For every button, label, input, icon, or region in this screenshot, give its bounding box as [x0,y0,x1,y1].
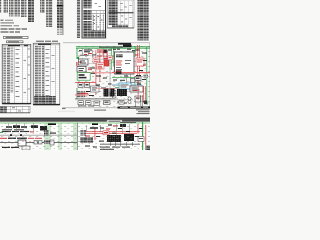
sheet1 bottom border [63,107,150,110]
red dashes under tab [113,125,118,126]
green pair risers mid [111,48,115,70]
dark box s2 [124,134,134,141]
red wire v1 [95,50,98,95]
harness table T1 [2,44,31,104]
switch S1 [77,67,93,73]
dark wire over green bus [120,121,136,124]
green bus wire upper [76,45,150,48]
red label box LB3 [108,56,113,60]
text row s2a [2,129,24,130]
wire list column 2 [9,0,14,17]
black box above red block [103,50,107,54]
legend column right [137,0,148,41]
sheet2 extra labels [85,128,143,148]
small component cluster right of bus [135,75,148,81]
green strip B [58,123,62,150]
text row s3 [8,138,42,139]
label CR right [92,123,98,125]
red wire h s2 right [80,130,140,133]
connector table TB [107,0,134,28]
wire under E1 [58,110,75,112]
sheet2 tab label [107,120,122,123]
wire bus lower [75,97,115,100]
note line 3 [1,24,20,27]
junction block [40,126,47,131]
red wire h2 s2 right [80,132,137,135]
pink feeder wire [77,72,150,73]
relay K1 [79,59,89,65]
green strip C [73,123,78,150]
wire bus lower2 [75,99,133,102]
green bus wire lower [76,47,150,50]
component box B1 [18,140,26,146]
red label box s2 [103,131,109,135]
green dash left s2 [0,131,3,134]
red riser s2 a [94,128,97,140]
junction box right [120,124,126,127]
scattered wire labels sheet1 [79,49,147,104]
connector table TA left border [81,0,84,38]
label DR [48,123,56,125]
text row s2 [2,131,34,133]
red riser s2 b [137,124,140,133]
red sensor box M1 [93,58,99,63]
harness table T2 header note [36,41,58,42]
connector balloons [128,96,141,103]
red splice blob [116,70,122,74]
pin stubs s2 [110,142,133,146]
red label box LB2 [136,58,144,66]
red cluster s2 [85,136,92,141]
wire list column 6 [40,0,45,13]
corner cluster s2 [146,146,151,151]
red wire v2 [99,52,102,82]
red stub left [0,138,7,139]
red feeder overlay [112,71,150,74]
footer text [94,110,106,111]
small boxes left of J2 [112,91,116,99]
black wire s2 right [100,143,140,146]
dark wire along bus [99,46,123,49]
sheet1 right border [148,43,151,109]
sheet1 label speckle [76,44,150,107]
small boxes row [34,141,42,145]
label row sheet2 left [6,125,38,128]
wire list column 1 [4,0,9,13]
boxes s2 right a [80,130,86,136]
green strip A [44,123,51,150]
title block text [136,109,150,114]
outlined box s2 right [138,137,144,142]
outlined note box 1 [4,36,29,38]
green wire right [142,122,143,150]
faint cross wires sheet1 [77,48,143,107]
connector table TA body [82,0,107,38]
text rows s2 right [100,147,130,150]
sheet1 top border [63,42,150,45]
ground hatch green [145,103,148,105]
schematic key column [77,0,81,38]
connector block J1 [104,88,115,97]
green bus label [123,45,132,48]
pump boxes row [78,101,94,107]
wire list column 3 [15,0,21,17]
green branch h1 [112,76,136,79]
note line 5 [1,32,21,33]
red wire pair right [137,45,140,75]
ECM2 label [90,127,98,128]
blue inset box [119,83,131,89]
note line 1 [1,19,14,22]
green frame G1 [77,73,90,81]
red wire h3 [75,94,89,97]
green branch h2 [115,86,135,89]
harness table T2 [33,43,60,105]
fuse block F2 [119,101,124,105]
inline fuse box [94,101,100,106]
ECM U1 [115,52,135,74]
outlined note box 2 [7,41,24,43]
ground cluster [76,91,85,98]
marks on grey wire [10,134,22,136]
connector block J2 [117,89,127,96]
lamp component [104,101,111,105]
dark blob right [144,101,147,105]
red wire h2 [75,81,96,84]
black cluster right of riser [131,79,141,84]
wire list column 4 [21,0,27,17]
grey wire s2 [0,134,77,137]
page background [0,0,150,150]
red label on wire [80,93,88,94]
green riser left segments [76,48,79,99]
sheet2 speckle [0,124,150,151]
red risers right lower [143,86,146,103]
wire list column 7 [46,0,53,27]
sheet1 title label [118,43,131,45]
green riser right [145,47,148,103]
black wire s2 [0,141,77,144]
ECM2 cluster [80,137,93,143]
sheet2 border vline [76,123,79,151]
green bus sheet2 [0,122,150,125]
red label box LB1 [97,63,105,70]
node E1 label [62,108,66,109]
wire list column 5 [28,0,34,22]
sheet2 page [0,122,150,150]
wire list column 8 with header bar [57,0,64,35]
title bar sheet1 [118,107,151,109]
wire list column edge strip [0,0,1,13]
connector grid s2 [107,135,121,142]
red riser right sheet2 [144,125,147,150]
cluster under strip A [44,130,56,145]
cyan signal wire [112,83,142,86]
sheet2 drop wires [8,123,130,135]
solid red block [104,58,109,66]
page separator band [0,118,150,122]
note line 4 dotted [1,29,28,30]
label under tab [108,124,112,125]
sensor row SR1 [78,83,90,88]
green riser mid [134,47,137,56]
note line 2 [1,22,15,25]
revision table fragment [0,106,30,113]
module M2 [91,86,100,92]
green branch v [134,77,137,88]
text row s4 [2,146,30,150]
label cluster A [80,50,105,56]
component box J3 [130,86,143,92]
